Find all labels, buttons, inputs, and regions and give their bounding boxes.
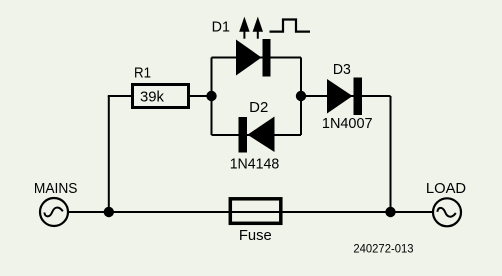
wire: right branch vertical (node B) — [300, 58, 302, 136]
wire: D2 bottom branch — [212, 134, 302, 136]
wire: node to R1 left lead — [108, 95, 132, 97]
junction: LOAD node — [385, 207, 395, 217]
junction: MAINS node — [104, 207, 114, 217]
wire: left vertical from MAINS node up to R1 — [108, 96, 110, 212]
junction: node B (D1/D2/D3) — [296, 91, 306, 101]
wire: MAINS to LOAD main bottom net — [69, 211, 432, 213]
wire: right vertical down to LOAD node — [390, 96, 392, 212]
svg-text:39k: 39k — [140, 89, 164, 106]
source LOAD (AC symbol) — [433, 198, 461, 226]
diode D1 (LED-style with arrows and pulse) — [236, 39, 271, 77]
diode D3 — [327, 78, 362, 116]
svg-text:D2: D2 — [249, 100, 268, 116]
arrow 2 above D1 — [253, 17, 263, 39]
svg-text:R1: R1 — [134, 66, 151, 82]
wire: left branch vertical (node A) — [211, 58, 213, 136]
resistor R1 — [133, 85, 189, 108]
svg-text:D1: D1 — [212, 20, 230, 36]
wire: D1 top branch — [212, 57, 302, 59]
wire: node B to D3 to right vertical — [301, 95, 391, 97]
diode D2 — [239, 117, 275, 153]
svg-text:1N4007: 1N4007 — [322, 116, 373, 132]
pulse waveform symbol — [270, 20, 311, 32]
svg-text:1N4148: 1N4148 — [230, 157, 280, 173]
fuse F1 — [230, 199, 280, 224]
svg-text:240272-013: 240272-013 — [353, 241, 413, 255]
junction: node A (R1/D1/D2) — [206, 91, 216, 101]
svg-text:LOAD: LOAD — [426, 181, 466, 197]
svg-text:D3: D3 — [333, 62, 351, 78]
arrow 1 above D1 — [239, 17, 249, 39]
svg-text:Fuse: Fuse — [239, 227, 272, 244]
svg-text:MAINS: MAINS — [34, 181, 78, 197]
wire: R1 right lead to node A — [189, 95, 212, 97]
source MAINS (AC symbol) — [40, 198, 68, 226]
